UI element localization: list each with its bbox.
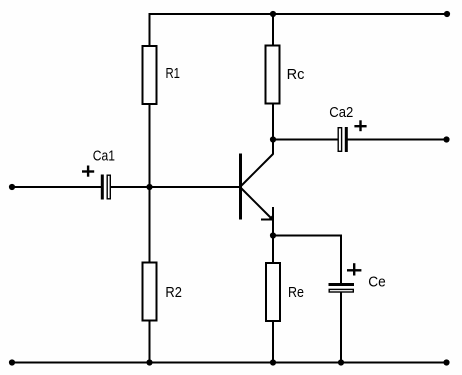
- svg-text:Rc: Rc: [287, 66, 305, 83]
- svg-text:R2: R2: [165, 284, 182, 301]
- svg-text:R1: R1: [166, 65, 181, 82]
- svg-text:Ca1: Ca1: [93, 148, 115, 165]
- svg-text:Re: Re: [288, 284, 304, 301]
- svg-text:Ce: Ce: [368, 274, 386, 291]
- svg-text:Ca2: Ca2: [329, 104, 353, 121]
